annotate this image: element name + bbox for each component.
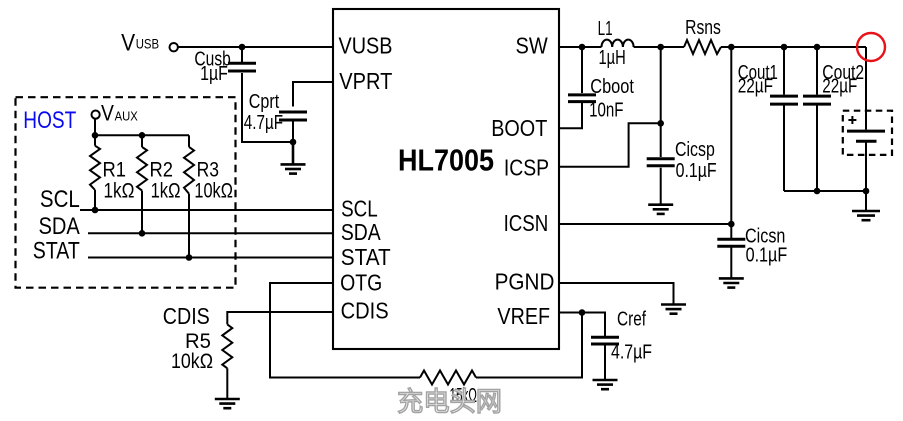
node junction Rsns right ICSN tap: [728, 44, 735, 51]
terminal VAUX: [92, 111, 100, 119]
svg-text:HL7005: HL7005: [398, 143, 494, 178]
node junction VAUX rail R2: [139, 132, 146, 139]
capacitor Cout2 22uF: [803, 47, 831, 191]
label R5: [185, 330, 211, 353]
resistor R4 15k OTG-VREF horizontal: [420, 371, 476, 385]
node junction ICSN: [728, 221, 735, 228]
svg-text:SCL: SCL: [341, 196, 378, 222]
node junction ICSP: [657, 120, 664, 127]
label R2: [150, 158, 174, 181]
wire SCL to IC: [80, 209, 333, 211]
label Rsns: [685, 17, 721, 39]
label Cboot value 10nF: [589, 99, 623, 121]
wire SW node down to Cicsp: [660, 47, 662, 157]
label R3: [197, 158, 219, 181]
svg-text:V: V: [101, 100, 114, 125]
wire bottom resistor to VREF node: [476, 313, 582, 378]
label pin CDIS: [341, 298, 389, 324]
wire SW pin to L1: [559, 46, 602, 48]
wire VPRT pin to Cprt: [293, 82, 333, 107]
svg-text:CDIS: CDIS: [341, 298, 389, 324]
label VAUX net: [101, 100, 138, 125]
svg-text:OTG: OTG: [340, 269, 382, 295]
svg-text:ICSP: ICSP: [504, 154, 549, 180]
ground below Cref: [593, 345, 618, 389]
svg-text:10nF: 10nF: [589, 99, 623, 121]
capacitor Cicsn 0.1uF: [717, 239, 745, 246]
resistor Rsns sense: [684, 40, 721, 54]
label R3 value 10k: [194, 180, 233, 203]
label pin SDA: [341, 219, 381, 245]
node junction battery bottom: [863, 188, 870, 195]
label pin BOOT: [491, 115, 547, 141]
node junction Cout1 tap: [781, 44, 788, 51]
wire VUSB terminal to VUSB pin: [178, 46, 333, 48]
svg-text:1µH: 1µH: [599, 47, 626, 69]
wire CDIS pin to R5: [227, 312, 333, 324]
wire Rsns right down to Cicsn: [730, 47, 732, 239]
label CDIS net: [163, 303, 210, 329]
node junction VREF: [579, 309, 586, 316]
svg-text:R1: R1: [103, 158, 127, 181]
label Cref value: [611, 342, 652, 364]
label SDA net: [39, 213, 80, 240]
wire output down through battery: [865, 47, 867, 191]
label Cprt: [249, 91, 280, 113]
ground below Cicsn: [719, 247, 744, 288]
label Cicsn value: [746, 244, 788, 266]
ground below Cicsp: [648, 168, 673, 214]
battery plates: [847, 131, 885, 141]
label Cboot: [590, 76, 634, 98]
svg-text:10kΩ: 10kΩ: [194, 180, 233, 203]
svg-text:V: V: [121, 29, 135, 56]
svg-text:22µF: 22µF: [738, 75, 773, 97]
label HL7005: [398, 143, 494, 178]
resistor R3 10k: [184, 135, 194, 257]
label Cout1: [738, 62, 778, 84]
svg-text:22µF: 22µF: [822, 75, 857, 97]
svg-text:1kΩ: 1kΩ: [104, 180, 135, 203]
wire SDA to IC: [88, 232, 333, 234]
battery dashed box: [843, 111, 892, 155]
label Cout2 value: [822, 75, 857, 97]
label pin VPRT: [339, 68, 392, 94]
watermark: [397, 387, 502, 417]
node junction R3 on STAT: [186, 254, 193, 261]
node junction Cout2 bottom: [814, 188, 821, 195]
label pin PGND: [495, 268, 555, 294]
svg-text:0.1µF: 0.1µF: [746, 244, 788, 266]
label L1: [598, 18, 613, 40]
capacitor Cusb 1uF: [228, 63, 256, 71]
red highlight circle output terminal: [857, 33, 885, 61]
node junction Cboot tap: [579, 44, 586, 51]
ground below Cusb/Cprt: [281, 142, 306, 174]
battery plus sign: [848, 116, 856, 124]
node junction Cout2 tap: [814, 44, 821, 51]
label Cicsp: [675, 139, 715, 161]
label R4 value 15k: [450, 385, 478, 407]
label HOST: [23, 107, 76, 134]
svg-text:USB: USB: [136, 37, 159, 52]
label R5 value 10k: [171, 350, 213, 373]
HOST dashed box: [16, 97, 236, 288]
svg-text:VUSB: VUSB: [339, 32, 393, 58]
wire OTG loop down: [270, 283, 420, 378]
label Cout1 value: [738, 75, 773, 97]
svg-text:Cicsp: Cicsp: [675, 139, 715, 161]
svg-text:AUX: AUX: [115, 109, 138, 124]
svg-text:BOOT: BOOT: [491, 115, 547, 141]
label pin VUSB: [339, 32, 393, 58]
wire ICSP pin jog: [559, 123, 661, 167]
wire VAUX to resistor rail: [95, 118, 189, 135]
svg-text:1kΩ: 1kΩ: [151, 180, 181, 203]
label pin ICSP: [504, 154, 549, 180]
svg-text:STAT: STAT: [33, 237, 80, 264]
wire VREF pin to Cref: [559, 313, 605, 337]
label Cicsn: [745, 225, 785, 247]
svg-text:VPRT: VPRT: [339, 68, 392, 94]
capacitor Cboot 10nF: [559, 47, 596, 128]
svg-text:PGND: PGND: [495, 268, 555, 294]
label Cout2: [822, 62, 864, 84]
label pin ICSN: [504, 210, 549, 236]
node junction Cusb/Cprt ground node: [290, 139, 297, 146]
ground below battery: [852, 191, 880, 220]
svg-text:VREF: VREF: [497, 303, 550, 329]
wire ICSN pin to Cicsn node: [559, 223, 732, 225]
node junction R2 on SDA: [139, 230, 146, 237]
svg-text:SDA: SDA: [341, 219, 381, 245]
resistor R2 1k: [137, 135, 147, 233]
resistor R1 1k: [90, 135, 100, 210]
svg-text:Cprt: Cprt: [249, 91, 280, 113]
wire Cusb upper lead: [241, 47, 243, 64]
wire output bottom rail: [784, 190, 866, 192]
label pin STAT: [341, 244, 391, 270]
label L1 value 1uH: [599, 47, 626, 69]
label R1: [103, 158, 127, 181]
svg-text:R3: R3: [197, 158, 219, 181]
ground below R5: [215, 399, 240, 408]
svg-text:SCL: SCL: [40, 186, 80, 213]
label SCL net: [40, 186, 80, 213]
label R2 value 1k: [151, 180, 181, 203]
wire STAT to IC: [88, 257, 333, 259]
resistor R5 10k: [222, 324, 232, 399]
capacitor Cout1 22uF: [770, 47, 798, 191]
svg-text:ICSN: ICSN: [504, 210, 549, 236]
node junction after L1: [657, 44, 664, 51]
node junction VAUX rail R1: [92, 132, 99, 139]
label VUSB net: [121, 29, 159, 56]
label 4.7uF: [244, 112, 283, 134]
label 1uF: [200, 63, 228, 85]
svg-text:Cboot: Cboot: [590, 76, 634, 98]
node junction Cusb tap: [239, 44, 246, 51]
svg-text:1µF: 1µF: [200, 63, 228, 85]
capacitor Cprt 4.7uF: [279, 112, 307, 120]
svg-text:Rsns: Rsns: [685, 17, 721, 39]
label Cref: [617, 309, 646, 331]
ground below PGND: [661, 305, 686, 314]
svg-text:4.7µF: 4.7µF: [611, 342, 652, 364]
wire PGND pin to ground: [559, 283, 674, 305]
svg-text:Cref: Cref: [617, 309, 646, 331]
label pin OTG: [340, 269, 382, 295]
svg-text:4.7µF: 4.7µF: [244, 112, 283, 134]
wire Cusb lower lead to ground node: [242, 73, 293, 142]
wire L1 to Rsns: [634, 46, 684, 48]
capacitor Cicsp 0.1uF: [647, 159, 675, 166]
terminal VUSB input: [170, 43, 178, 51]
label pin VREF: [497, 303, 550, 329]
label pin SW: [516, 33, 548, 59]
svg-text:SDA: SDA: [39, 213, 80, 240]
svg-text:0.1µF: 0.1µF: [676, 160, 717, 182]
label pin SCL: [341, 196, 378, 222]
wire Rsns to output: [721, 46, 866, 48]
label Cicsp value: [676, 160, 717, 182]
svg-text:L1: L1: [598, 18, 613, 40]
capacitor Cref 4.7uF: [591, 337, 619, 344]
svg-text:CDIS: CDIS: [163, 303, 210, 329]
IC U1 HL7005 body: [333, 9, 559, 349]
svg-text:R2: R2: [150, 158, 174, 181]
wire Cprt lower lead: [292, 121, 294, 142]
node junction R1 on SCL: [92, 207, 99, 214]
label STAT net: [33, 237, 80, 264]
label Cusb: [194, 48, 230, 70]
label R1 value 1k: [104, 180, 135, 203]
svg-text:HOST: HOST: [23, 107, 76, 134]
svg-text:充电头网: 充电头网: [397, 387, 502, 417]
inductor L1 1uH: [602, 40, 634, 47]
svg-text:10kΩ: 10kΩ: [171, 350, 213, 373]
svg-text:SW: SW: [516, 33, 548, 59]
svg-text:STAT: STAT: [341, 244, 391, 270]
